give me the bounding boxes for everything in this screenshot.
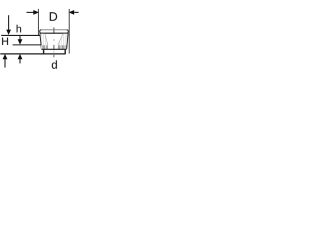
right wall outer edge [67,34,69,50]
extension line A [1,34,40,36]
centerline segment bottom [53,55,55,58]
dimension h: down-arrowhead [18,39,23,44]
dimension D: right extension line [68,9,70,54]
dimension H: lower up-arrow shaft [4,59,6,68]
dimension h: up-arrow shaft [19,59,21,64]
centerline segment lower [53,45,55,50]
left wall inner edge [45,34,48,45]
dimension H: upper down-arrowhead [6,30,11,35]
right wall inner edge [58,34,63,45]
dimension D: left arrowhead [33,10,39,15]
label D [50,12,57,21]
fitting bottom-left wall [43,50,45,55]
dimension H: upper down-arrow shaft [8,15,10,30]
centerline dot mid [53,39,55,40]
right seal hatch patch [57,45,66,49]
extension line B [13,44,41,46]
dimension h: down-arrow shaft [19,36,21,40]
label H [2,38,8,45]
dimension D: right tail [74,11,78,13]
right wall light section fill [58,34,68,46]
rim left cap [40,30,42,33]
dimension D: left tail [27,11,34,13]
left seal hatch patch [41,45,49,49]
label d [52,60,57,68]
label h [17,25,21,33]
dimension D: right arrowhead [69,10,75,15]
left wall outer edge [40,34,42,50]
dimension h: up-arrowhead [18,54,23,59]
extension line C / bottom edge [0,53,65,55]
dimension H: lower up-arrowhead [3,54,8,59]
rim underside line [40,32,69,34]
fitting mid shoulder line [42,48,67,50]
centerline dot lower [53,51,55,52]
dimension D: left extension line [37,9,39,36]
fitting top rim (capsule) [41,29,67,31]
fitting bottom-right wall [64,50,66,55]
centerline segment top [53,27,55,33]
left wall light section fill [40,34,48,46]
rim right cap [67,30,69,33]
